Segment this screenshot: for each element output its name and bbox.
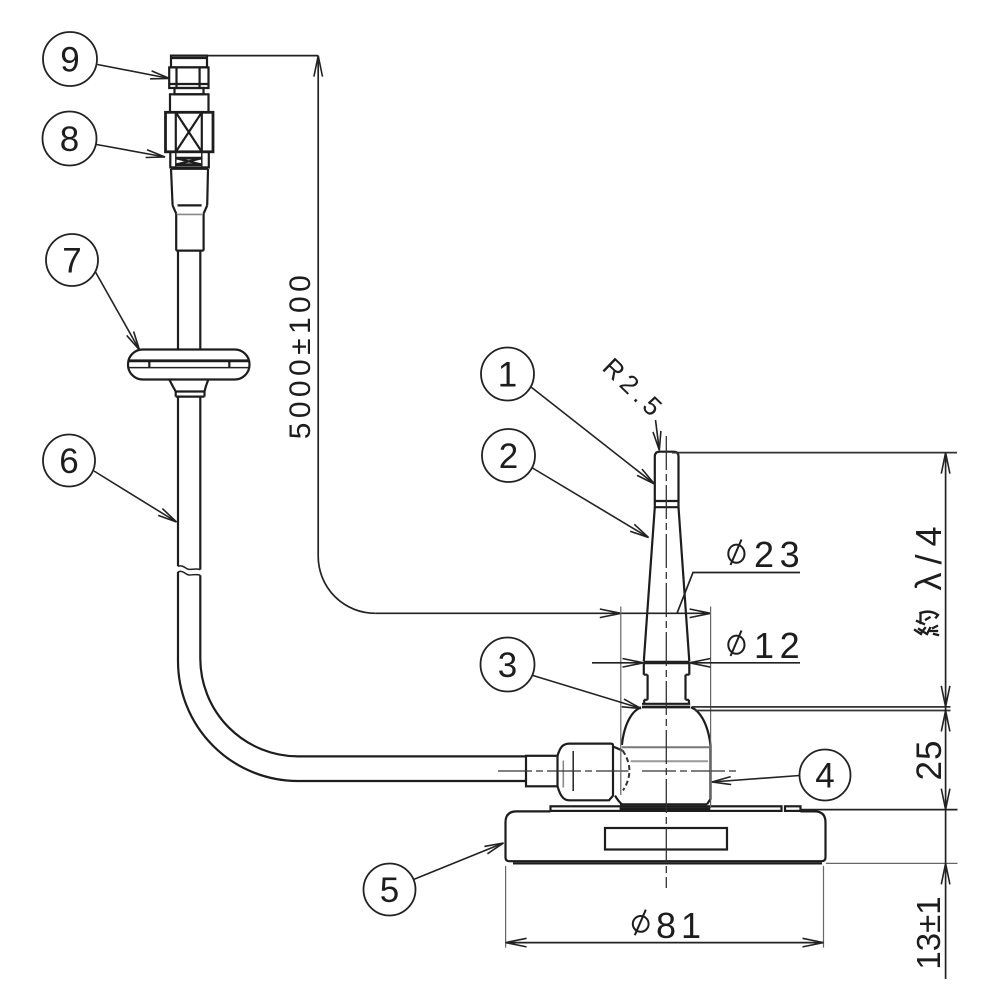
swivel housing bell (622, 707, 711, 745)
connector barrel (170, 94, 209, 112)
dim 5000+-100 extension from connector top (207, 55, 318, 57)
svg-text:5: 5 (380, 871, 399, 910)
cable lower run and 90 degree bend (178, 572, 526, 781)
plug moulded body (558, 744, 614, 801)
base body (506, 811, 826, 861)
rubber pad bottom (513, 862, 822, 864)
dim phi81 text (633, 916, 649, 932)
label window (605, 828, 727, 850)
leader 1 (531, 387, 655, 484)
svg-text:9: 9 (60, 41, 79, 80)
plug neck (526, 756, 558, 787)
cable mid run (178, 397, 200, 570)
balloon 8 (43, 112, 97, 166)
housing bottom left (615, 796, 622, 805)
balloon 1 (481, 348, 534, 401)
dim phi81 line (506, 942, 824, 944)
ext line top (whip tip) (672, 452, 957, 454)
connector neck (175, 88, 204, 94)
suction disc part 7 (128, 350, 250, 380)
svg-text:2: 2 (499, 437, 518, 476)
whip taper (part 2) (644, 507, 690, 661)
horizontal centreline (498, 770, 629, 772)
svg-text:25: 25 (910, 740, 949, 781)
ext line base top (801, 809, 958, 811)
housing internal lines (622, 746, 709, 748)
svg-text:13±1: 13±1 (910, 896, 947, 969)
base top lip (551, 806, 782, 811)
vertical centreline (665, 436, 667, 888)
svg-text:8: 8 (60, 120, 79, 159)
hex coupling nut (169, 67, 208, 88)
ext line base bottom (826, 862, 958, 864)
svg-text:λ/4: λ/4 (908, 518, 949, 590)
leader 6 (94, 471, 177, 522)
svg-text:6: 6 (59, 442, 78, 481)
leader 9 (98, 65, 170, 79)
cable sleeve (176, 214, 203, 251)
plug top-right nub (613, 747, 622, 751)
dim 5000+-100 vertical line with elbow (318, 56, 375, 614)
ext double lines at whip joint (692, 706, 951, 708)
dim phi23 leader hop (677, 573, 800, 614)
dim phi23 line (375, 612, 711, 614)
leader 4 (712, 776, 800, 783)
right dimension vertical (945, 453, 947, 979)
kanji yaku (approx.) drawn (915, 612, 938, 635)
cable (part 6) upper run (178, 251, 200, 350)
dim phi12 text (728, 636, 744, 654)
R2.5 leader (656, 420, 660, 450)
leader 5 (414, 843, 504, 880)
leader 7 (96, 272, 140, 350)
balloon 7 (46, 234, 98, 286)
svg-text:4: 4 (815, 757, 834, 796)
balloon 3 (481, 638, 535, 692)
cable break symbol (178, 566, 200, 570)
leader 8 (97, 145, 166, 158)
whip shank with groove (part 3 area) (644, 664, 690, 704)
dim phi23 extension lines (620, 607, 622, 796)
leader 3 (533, 676, 641, 709)
whip tip cap (part 1, R2.5) (655, 452, 679, 501)
strain relief boot (171, 169, 208, 214)
balloon 4 (800, 750, 851, 801)
svg-text:1: 1 (498, 356, 517, 395)
svg-text:81: 81 (656, 905, 706, 946)
svg-text:3: 3 (498, 646, 517, 685)
svg-text:5000±100: 5000±100 (284, 271, 317, 439)
svg-text:23: 23 (754, 534, 805, 575)
whip base cap thick edge (644, 661, 690, 664)
leader 2 (533, 468, 649, 538)
disc funnel neck (169, 380, 208, 392)
lock ring (part 3) (642, 703, 690, 705)
dim phi23 text (728, 545, 744, 563)
svg-text:7: 7 (62, 242, 81, 281)
balloon 6 (43, 435, 95, 487)
svg-text:12: 12 (754, 625, 805, 666)
dim phi81 extension lines (506, 866, 824, 948)
dim phi12 line (592, 662, 800, 664)
balloon 2 (482, 429, 535, 482)
small crimp ring with bowtie (170, 152, 209, 168)
crimp sleeve with X (part 8) (166, 112, 214, 152)
connector cap (part 9 tip) (171, 56, 207, 68)
ball joint (623, 750, 630, 790)
balloon 9 (43, 32, 97, 86)
balloon 5 (364, 864, 416, 916)
